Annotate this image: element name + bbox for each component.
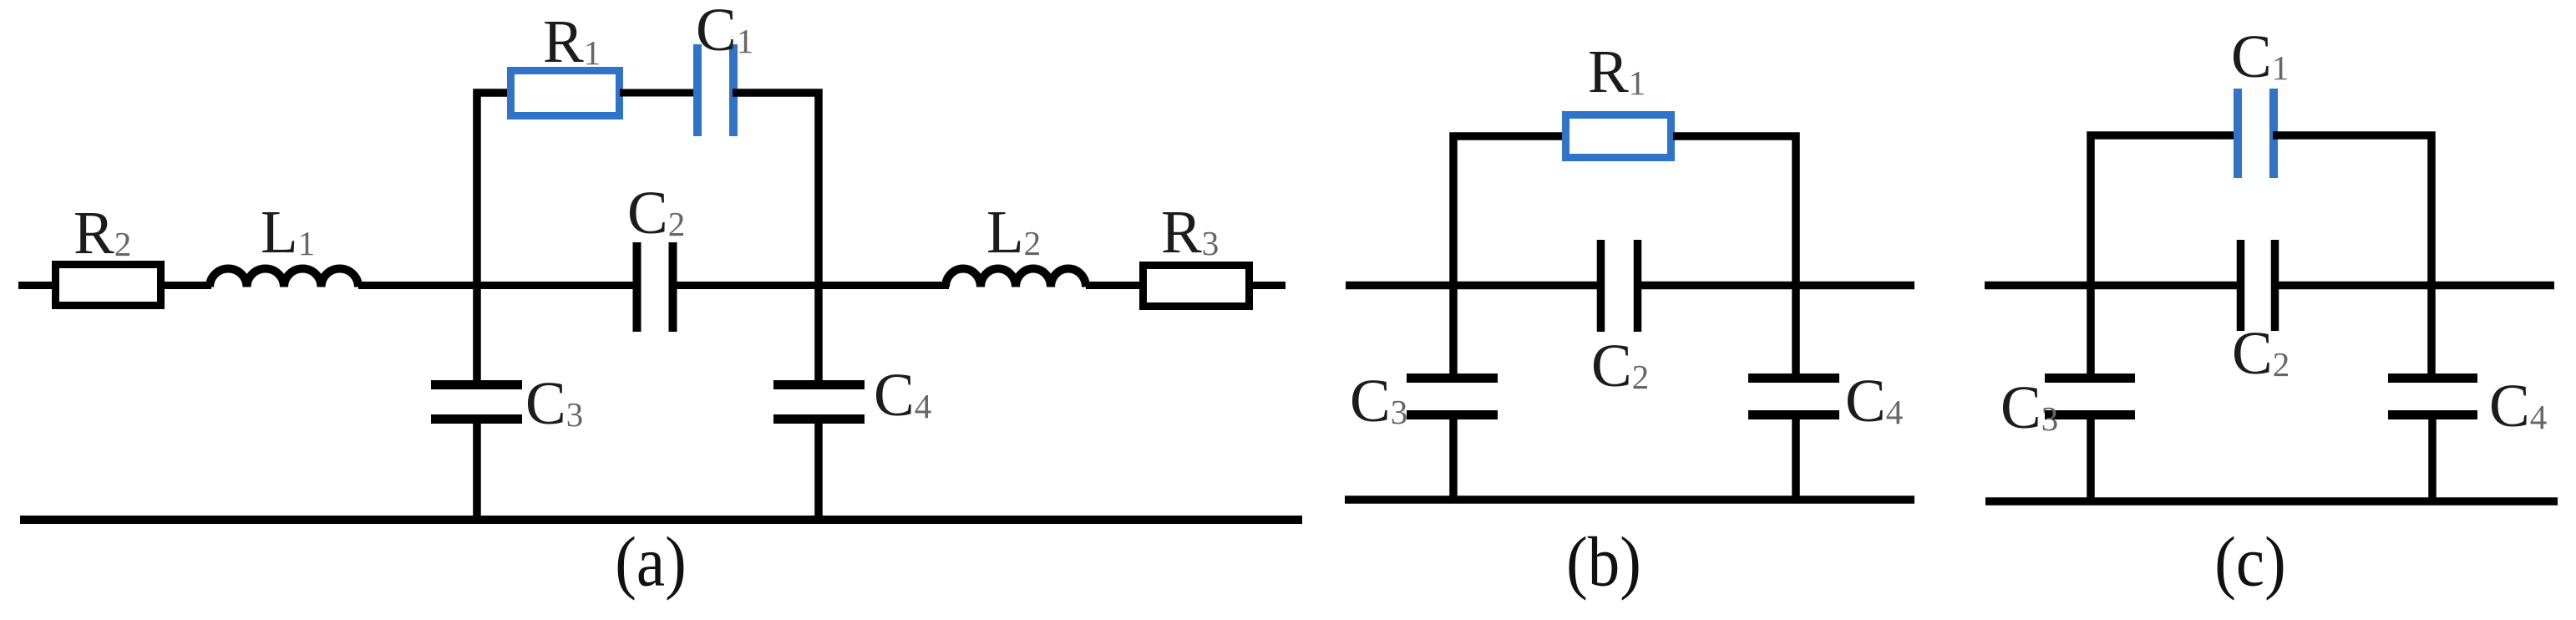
- svg-text:C3: C3: [2000, 374, 2058, 441]
- resistor R1 (b): [1566, 115, 1671, 158]
- caption (b): [1566, 522, 1641, 601]
- ground rail (a): [20, 516, 1302, 524]
- resistor R2: [56, 265, 161, 306]
- capacitor C3 (a): [431, 380, 522, 389]
- wire C4 to ground rail (b): [1792, 414, 1800, 500]
- main wire right segment (c): [2274, 282, 2554, 290]
- svg-text:L1: L1: [261, 198, 315, 266]
- wire R1 to C1 (a): [620, 89, 698, 97]
- wire input stub (a): [18, 282, 57, 289]
- wire C3 to ground rail (c): [2087, 414, 2095, 501]
- svg-text:C4: C4: [874, 361, 931, 429]
- svg-text:C3: C3: [1350, 367, 1407, 435]
- capacitor C3 (c): [2045, 374, 2135, 383]
- wire left riser node1 to top branch: [477, 93, 510, 380]
- main wire left segment (b): [1346, 282, 1601, 290]
- wire C3 to ground rail: [473, 419, 481, 520]
- svg-text:C2: C2: [2232, 319, 2289, 387]
- svg-text:C1: C1: [696, 0, 753, 64]
- svg-text:R1: R1: [1588, 38, 1645, 105]
- svg-text:C1: C1: [2231, 23, 2289, 90]
- wire C3 to ground rail (b): [1449, 414, 1458, 500]
- inductor L1: [210, 269, 358, 287]
- wire C1 to right riser (c): [2273, 135, 2431, 374]
- wire C2 to L2 (junction node 2): [673, 282, 949, 289]
- svg-text:R1: R1: [543, 8, 601, 75]
- ground rail (b): [1345, 495, 1914, 504]
- svg-text:C4: C4: [2489, 372, 2547, 440]
- capacitor C4 (a): [773, 380, 865, 389]
- capacitor C2 (a): [633, 242, 641, 332]
- capacitor C4 (b): [1748, 374, 1839, 383]
- capacitor C2 (b): [1597, 240, 1605, 332]
- inductor L2: [946, 269, 1086, 287]
- svg-text:(b): (b): [1566, 522, 1641, 601]
- wire R2 to L1: [161, 282, 211, 289]
- svg-text:L2: L2: [986, 198, 1041, 266]
- main wire left segment (c): [1985, 282, 2241, 290]
- caption (a): [615, 522, 686, 601]
- main wire right segment (b): [1637, 282, 1914, 290]
- svg-text:R2: R2: [74, 199, 131, 267]
- resistor R3: [1143, 266, 1250, 307]
- wire C4 to ground rail: [814, 419, 823, 520]
- resistor R1 (a): [511, 71, 620, 116]
- svg-text:C3: C3: [525, 369, 583, 437]
- svg-text:(c): (c): [2214, 522, 2285, 601]
- wire R1 to right riser (b): [1673, 136, 1796, 374]
- wire C4 to ground rail (c): [2428, 414, 2437, 501]
- svg-text:R3: R3: [1161, 198, 1219, 266]
- wire left riser to R1 (b): [1453, 136, 1564, 374]
- wire L2 to R3: [1086, 282, 1143, 289]
- ground rail (c): [1985, 497, 2558, 506]
- svg-text:C2: C2: [1591, 332, 1649, 399]
- caption (c): [2214, 522, 2285, 601]
- wire left riser to C1 (c): [2091, 135, 2239, 374]
- capacitor C4 (c): [2388, 374, 2477, 383]
- wire output stub (a): [1249, 282, 1285, 289]
- wire L1 to C2 (junction node 1): [358, 282, 636, 289]
- capacitor C1 (c): [2234, 89, 2242, 178]
- svg-text:C4: C4: [1845, 367, 1903, 435]
- capacitor C3 (b): [1407, 374, 1498, 383]
- capacitor C1 (a): [693, 44, 702, 136]
- svg-text:(a): (a): [615, 522, 686, 601]
- wire C1 to right riser node2: [733, 93, 819, 380]
- capacitor C2 (c): [2237, 240, 2245, 331]
- svg-text:C2: C2: [627, 179, 685, 246]
